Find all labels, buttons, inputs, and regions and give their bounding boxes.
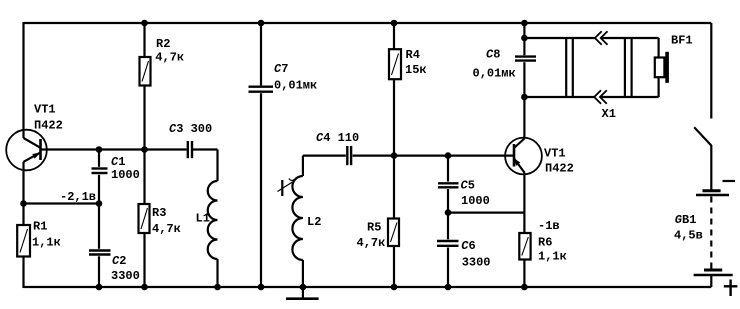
wire left rail emitter segment [22, 162, 24, 288]
wire X1 top lead [524, 37, 595, 39]
connector X1 bottom chevrons [594, 90, 607, 104]
svg-text:L2: L2 [307, 215, 321, 229]
resistor R6 [519, 233, 530, 260]
svg-text:3300: 3300 [462, 255, 491, 269]
svg-text:-1в: -1в [538, 219, 560, 233]
svg-text:BF1: BF1 [671, 34, 693, 48]
wire X1 top lead right part [602, 37, 659, 39]
wire base line of VT1 first [41, 148, 187, 150]
earphone BF1 [655, 38, 669, 97]
svg-text:П422: П422 [545, 162, 574, 176]
wire C5/C6 node to VT1 second emitter [448, 212, 525, 214]
resistor R3 [139, 204, 150, 233]
resistor R2 [140, 57, 151, 86]
wire left rail collector segment [22, 22, 24, 138]
capacitor C1 [92, 150, 108, 204]
wire top supply rail [24, 22, 712, 24]
wire R2/R3 divider line [143, 23, 145, 287]
transistor VT1 (second stage) [505, 138, 542, 175]
svg-text:C8: C8 [486, 48, 500, 62]
wire VT1 second collector up [523, 97, 525, 139]
svg-text:R1: R1 [33, 220, 47, 234]
capacitor C6 [437, 213, 459, 287]
svg-text:3300: 3300 [111, 269, 140, 283]
svg-text:4,7к: 4,7к [357, 236, 386, 250]
switch [694, 127, 711, 145]
capacitor C3 [188, 141, 218, 158]
svg-text:0,01мк: 0,01мк [274, 79, 317, 93]
svg-text:C7: C7 [274, 62, 288, 76]
wire emitter node line (-2,1в) [24, 202, 100, 204]
svg-text:1000: 1000 [461, 194, 490, 208]
inductor L1 [208, 150, 218, 288]
transistor VT1 (first stage) [6, 130, 47, 171]
svg-text:VT1: VT1 [34, 103, 56, 117]
wire mid coupling line L2 to C4 [303, 155, 346, 157]
capacitor C7 [249, 23, 274, 287]
inductor L2 [292, 156, 303, 287]
svg-text:C4 110: C4 110 [316, 131, 359, 145]
wire X1 bottom lead [524, 96, 594, 98]
svg-text:R4: R4 [406, 48, 420, 62]
svg-text:1000: 1000 [111, 168, 140, 182]
svg-text:15к: 15к [405, 63, 427, 77]
wire bottom supply rail [24, 286, 712, 288]
resistor R4 [389, 49, 401, 79]
wire right rail to battery [710, 145, 712, 191]
connector X1 top chevrons [595, 31, 608, 45]
capacitor C5 [438, 156, 459, 213]
node dots [20, 20, 528, 291]
svg-text:C6: C6 [461, 239, 475, 253]
svg-text:R3: R3 [152, 206, 166, 220]
svg-text:4,5в: 4,5в [674, 229, 703, 243]
svg-text:R6: R6 [538, 236, 552, 250]
wire R4/R5 line [393, 23, 395, 287]
svg-text:C3 300: C3 300 [169, 122, 212, 136]
svg-text:0,01мк: 0,01мк [473, 67, 516, 81]
svg-text:-2,1в: -2,1в [60, 190, 96, 204]
svg-text:4,7к: 4,7к [155, 51, 184, 65]
svg-text:1,1к: 1,1к [32, 236, 61, 250]
resistor R5 [388, 219, 399, 247]
wire VT1 second emitter down [523, 173, 525, 288]
svg-text:R2: R2 [156, 37, 170, 51]
svg-text:П422: П422 [34, 119, 63, 133]
svg-text:VT1: VT1 [544, 147, 566, 161]
svg-text:C2: C2 [112, 254, 126, 268]
svg-text:GB1: GB1 [675, 213, 697, 227]
svg-text:C5: C5 [461, 179, 475, 193]
trimmer adjustment mark of L2 [278, 179, 295, 197]
wire C4 to VT1 base (second) [353, 155, 514, 157]
svg-text:1,1к: 1,1к [538, 250, 567, 264]
connector X1 contact bars [566, 38, 631, 97]
svg-text:4,7к: 4,7к [152, 222, 181, 236]
svg-text:X1: X1 [602, 107, 616, 121]
battery GB1 [694, 181, 738, 296]
svg-text:C1: C1 [111, 155, 125, 169]
svg-text:L1: L1 [196, 212, 210, 226]
ground [286, 287, 319, 299]
wire X1 bottom lead right part [601, 96, 659, 98]
capacitor C4 [347, 146, 351, 165]
capacitor C2 [89, 204, 111, 288]
svg-text:R5: R5 [367, 221, 381, 235]
capacitor C8 [515, 23, 536, 97]
wire right rail upper [710, 23, 712, 119]
resistor R1 [17, 225, 30, 257]
